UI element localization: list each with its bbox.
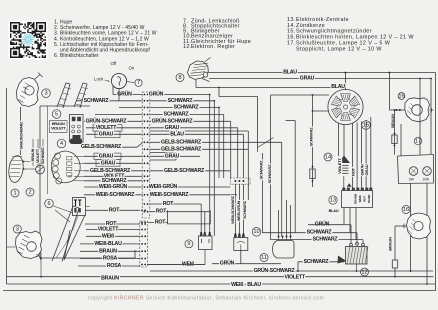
- blinker lower wires: [7, 247, 42, 277]
- tail light drop wires: [401, 79, 427, 285]
- svg-text:SCHWARZ: SCHWARZ: [309, 127, 314, 147]
- wire to electronic box right: [370, 117, 372, 188]
- tail light 17 box: [398, 155, 434, 184]
- label BRAUN VIOLETT at switch: [50, 121, 68, 133]
- wire rows at upper connector strip: [76, 91, 282, 215]
- handlebar lever boots: [57, 83, 88, 108]
- svg-text:WEIß-BLAU: WEIß-BLAU: [94, 241, 122, 247]
- wire BLAU to magneto: [196, 72, 346, 97]
- wire SCHWARZ regulator ground: [298, 256, 347, 272]
- legend column 3: [287, 17, 414, 53]
- svg-text:ROT: ROT: [156, 209, 167, 215]
- rear blinker 16 upper: [405, 98, 434, 122]
- svg-text:BLAU: BLAU: [329, 209, 339, 213]
- svg-text:GRÜN-SCHWARZ: GRÜN-SCHWARZ: [86, 117, 128, 124]
- bulb stub wires: [86, 207, 143, 211]
- svg-text:10: 10: [253, 229, 259, 235]
- blinker switch lever: [54, 206, 74, 222]
- svg-text:GRÜN: GRÜN: [117, 91, 132, 98]
- frame border right: [435, 73, 437, 291]
- wire BRAUN blinker lower: [388, 226, 407, 277]
- svg-text:Lock: Lock: [94, 77, 104, 82]
- svg-text:9: 9: [187, 241, 190, 247]
- svg-text:GRÜN: GRÜN: [149, 91, 164, 98]
- control lamp stub wires: [74, 156, 84, 181]
- headlamp bulb 2: [73, 198, 86, 216]
- wire GRAU-SCHWARZ vertical left: [19, 107, 23, 155]
- control lamp connector: [70, 139, 82, 145]
- svg-text:1: 1: [13, 190, 16, 196]
- svg-text:16: 16: [403, 207, 409, 213]
- wire GELB-SCHWARZ left jog: [81, 143, 142, 150]
- svg-text:ROT: ROT: [163, 201, 174, 207]
- svg-text:SCHWARZ: SCHWARZ: [41, 147, 45, 165]
- svg-text:16: 16: [398, 93, 404, 99]
- flywheel magneto 15: [328, 89, 363, 124]
- svg-text:GRAU: GRAU: [99, 153, 114, 159]
- legend column 1: [54, 20, 157, 60]
- fuse mid with SCHWARZ label: [309, 95, 338, 187]
- svg-text:ROT: ROT: [155, 219, 166, 225]
- svg-text:5.: 5.: [54, 42, 58, 48]
- connector strip lower: [140, 221, 148, 267]
- svg-text:12: 12: [361, 269, 367, 275]
- svg-text:BRAUN: BRAUN: [31, 148, 35, 161]
- wire GRAU top bus: [209, 76, 431, 155]
- svg-text:WEIß-GRÜN: WEIß-GRÜN: [236, 200, 241, 221]
- wire SCHWARZ to regulator a: [262, 208, 357, 244]
- wire magneto mid: [356, 123, 358, 188]
- headlamp shell outline: [40, 106, 135, 258]
- svg-text:copyright KIRCHNER Service Kab: copyright KIRCHNER Service Kabelmanufakt…: [88, 296, 324, 302]
- ref 3 circle upper: [42, 89, 51, 98]
- wire WEISS-BLAU bottom bus: [7, 282, 436, 288]
- svg-text:SCHWARZ: SCHWARZ: [267, 164, 272, 184]
- ref 6 circle: [45, 199, 54, 208]
- spark plug 14: [338, 125, 350, 188]
- svg-text:BRAUN: BRAUN: [99, 248, 117, 254]
- horn 1: [7, 155, 25, 184]
- svg-text:GRÜN: GRÜN: [220, 260, 235, 267]
- svg-text:VIOLETT: VIOLETT: [98, 227, 120, 233]
- wire trunk SCHWARZ vertical b: [267, 94, 329, 240]
- kill switch diagonal: [258, 138, 274, 148]
- headlamp reflector 2: [52, 206, 85, 262]
- ref 17 circle: [414, 137, 422, 145]
- svg-text:ROT: ROT: [109, 207, 120, 213]
- svg-text:VIOLETT: VIOLETT: [96, 125, 118, 131]
- svg-text:6: 6: [47, 201, 50, 207]
- wire GRUEN-SCHWARZ bottom bus: [150, 79, 433, 274]
- svg-text:VIOLETT: VIOLETT: [51, 127, 67, 131]
- svg-text:GRAU: GRAU: [300, 76, 315, 82]
- svg-text:5W: 5W: [409, 178, 414, 182]
- svg-text:VIOLETT: VIOLETT: [36, 148, 40, 163]
- svg-text:Stopplicht, Lampe 12 V – 10 W: Stopplicht, Lampe 12 V – 10 W: [296, 46, 382, 52]
- wire BRAUN to blinker 16 upper: [389, 72, 405, 128]
- svg-text:BRAUN: BRAUN: [390, 114, 395, 128]
- svg-text:SCHWARZ: SCHWARZ: [174, 105, 200, 111]
- svg-text:GELB-SCHWARZ: GELB-SCHWARZ: [164, 168, 205, 174]
- wire GRUEN magneto: [360, 122, 365, 188]
- wire GELB-SCHWARZ long a: [281, 142, 283, 236]
- svg-text:ROT: ROT: [351, 167, 356, 176]
- ref 13 circle: [329, 196, 337, 204]
- wire GRUEN to regulator: [308, 208, 351, 245]
- ignition lock wires: [113, 86, 124, 108]
- wire WEISS under 9: [147, 222, 205, 264]
- wire trunk horizontal upper: [219, 97, 258, 152]
- svg-text:GRÜN-SCHWARZ: GRÜN-SCHWARZ: [152, 117, 194, 124]
- wire ROSA long: [78, 263, 140, 269]
- svg-text:60: 60: [68, 175, 72, 179]
- horn terminals: [23, 161, 40, 170]
- fuel gauge 10: [234, 233, 248, 250]
- svg-text:WEIß-SCHWARZ: WEIß-SCHWARZ: [150, 192, 190, 198]
- ref 14 circle: [324, 153, 332, 161]
- ref 10 circle: [252, 228, 261, 237]
- regulator 12: [346, 242, 369, 271]
- svg-text:VIOLETT: VIOLETT: [284, 275, 306, 281]
- svg-text:ROT: ROT: [363, 196, 367, 202]
- svg-text:Blinklichtschalter: Blinklichtschalter: [60, 53, 99, 59]
- ref 8 circle: [176, 74, 184, 82]
- svg-text:7: 7: [137, 80, 140, 86]
- wire trunk SCHWARZ vertical a: [259, 153, 264, 233]
- stoplight switch 8: [188, 58, 211, 82]
- svg-text:On: On: [129, 66, 135, 71]
- flasher relay 9: [199, 204, 213, 265]
- ref 4 circle: [57, 139, 66, 148]
- svg-text:Off: Off: [111, 61, 118, 66]
- blinker lamp 3 front lower: [16, 231, 43, 260]
- blinker lamp 3 front upper: [17, 73, 43, 107]
- wire trunk vertical c: [247, 131, 249, 200]
- horn button: [36, 165, 45, 174]
- wire SCHWARZ vertical d: [286, 121, 296, 233]
- ref 11 circle: [260, 254, 268, 262]
- rectifier 11: [273, 236, 295, 264]
- rectifier feed wires: [279, 200, 291, 237]
- svg-text:BRAUN: BRAUN: [101, 276, 119, 282]
- wire ROT to loop: [147, 221, 167, 223]
- svg-text:SCHWARZ: SCHWARZ: [307, 230, 333, 236]
- wire rows at lower connector strip: [80, 207, 205, 267]
- svg-text:17.: 17.: [287, 41, 296, 47]
- svg-text:GELB-SCHWARZ: GELB-SCHWARZ: [161, 139, 202, 145]
- wire SCHWARZ to regulator b: [271, 208, 364, 245]
- svg-text:GRAU/SCHWARZ: GRAU/SCHWARZ: [19, 121, 23, 149]
- light switch 5: [70, 115, 84, 143]
- svg-text:SCHWARZ: SCHWARZ: [259, 160, 264, 180]
- rear blinker 16 lower: [403, 213, 431, 239]
- svg-text:6.: 6.: [54, 53, 58, 59]
- ref 7 circle: [135, 79, 142, 86]
- frame border left: [6, 88, 8, 284]
- svg-text:BRAUN: BRAUN: [388, 237, 393, 251]
- svg-text:3: 3: [16, 226, 19, 232]
- wire ROT magneto: [351, 124, 356, 188]
- ref 9 circle: [185, 240, 193, 248]
- svg-text:BLAU: BLAU: [331, 84, 345, 90]
- QR code watermark: [9, 21, 48, 60]
- svg-text:SCHWARZ: SCHWARZ: [102, 178, 128, 184]
- svg-text:WEIß: WEIß: [102, 233, 115, 239]
- ref 16 circle upper: [398, 93, 405, 100]
- svg-text:SCHW: SCHW: [367, 194, 371, 203]
- svg-text:WEIß: WEIß: [358, 195, 362, 202]
- ref 5 circle: [52, 110, 61, 119]
- ref 2 circle: [26, 188, 34, 196]
- ref 15 circle: [362, 121, 371, 130]
- svg-text:11: 11: [261, 255, 267, 261]
- svg-text:WEIß - BLAU: WEIß - BLAU: [231, 282, 261, 288]
- svg-text:ROSA: ROSA: [107, 263, 122, 269]
- connector strip upper: [142, 92, 150, 218]
- svg-text:GRAU: GRAU: [165, 153, 180, 159]
- wire row loop top: [150, 130, 249, 132]
- svg-text:VIOLETT: VIOLETT: [337, 158, 342, 174]
- legend column 2: [183, 18, 251, 50]
- wire loop rectangle: [168, 210, 211, 224]
- svg-text:3: 3: [44, 91, 47, 97]
- svg-text:BLAU: BLAU: [170, 131, 184, 137]
- electronic central pin labels: [354, 194, 372, 204]
- wire VIOLETT-BRAUN bottom bus: [7, 275, 434, 282]
- svg-text:BRAUN: BRAUN: [354, 194, 358, 204]
- svg-text:10W: 10W: [423, 178, 430, 182]
- svg-text:5: 5: [55, 111, 58, 117]
- svg-text:ROSA: ROSA: [103, 256, 118, 262]
- svg-text:SCHWARZ: SCHWARZ: [164, 112, 190, 118]
- control lamps 4 cluster: [51, 151, 80, 184]
- svg-text:GRAU: GRAU: [99, 131, 114, 137]
- svg-text:WEIß-GRÜN: WEIß-GRÜN: [149, 183, 178, 190]
- wire GRAU loop box: [150, 153, 176, 161]
- svg-text:WEIß-SCHWARZ: WEIß-SCHWARZ: [96, 192, 136, 198]
- wire BLAU top bus: [208, 70, 436, 76]
- svg-text:Elektron. Regler: Elektron. Regler: [191, 44, 235, 50]
- ref 1 circle: [11, 189, 19, 197]
- svg-text:4: 4: [60, 141, 63, 147]
- svg-text:GRÜN: GRÜN: [315, 221, 330, 228]
- fuel gauge vertical wires: [231, 184, 247, 234]
- svg-text:WEIß-GRÜN: WEIß-GRÜN: [99, 183, 128, 190]
- wire VIOLETT magneto: [337, 123, 342, 174]
- svg-text:14: 14: [325, 154, 331, 160]
- wire GRUEN under 10: [212, 251, 281, 267]
- svg-text:BLAU: BLAU: [283, 70, 297, 76]
- svg-text:WEIß-SCHWARZ: WEIß-SCHWARZ: [231, 195, 235, 223]
- svg-text:GELB-SCHWARZ: GELB-SCHWARZ: [161, 146, 202, 152]
- svg-text:SCHWARZ: SCHWARZ: [304, 259, 330, 265]
- electronic central 13: [342, 183, 373, 207]
- svg-text:8: 8: [178, 75, 181, 81]
- ref 12 circle: [361, 268, 369, 276]
- wire magneto left to fuse: [312, 110, 329, 112]
- svg-text:13: 13: [330, 197, 336, 203]
- frame border bottom: [3, 290, 436, 292]
- svg-text:GRAU: GRAU: [101, 160, 116, 166]
- svg-text:GRÜN-SCHWARZ: GRÜN-SCHWARZ: [254, 267, 296, 274]
- fuel gauge connector: [230, 178, 250, 184]
- wire corner verticals center: [210, 88, 244, 237]
- svg-text:BRAUN: BRAUN: [52, 122, 65, 126]
- svg-text:GRAU: GRAU: [165, 125, 180, 131]
- svg-text:SCHWARZ: SCHWARZ: [84, 98, 110, 104]
- svg-text:GELB-SCHWARZ: GELB-SCHWARZ: [81, 144, 122, 150]
- wire GRAU magneto: [364, 120, 369, 188]
- svg-text:SCHWARZ: SCHWARZ: [168, 98, 194, 104]
- ref 16 circle lower: [402, 206, 410, 214]
- horn button wires: [31, 139, 45, 168]
- fuse right: [392, 109, 397, 155]
- svg-text:SCHWARZ: SCHWARZ: [243, 200, 247, 219]
- svg-text:SCHWARZ: SCHWARZ: [313, 237, 339, 243]
- ref 3 circle lower: [13, 225, 21, 233]
- svg-text:2: 2: [28, 189, 31, 195]
- ignition lock 7: [94, 61, 135, 89]
- svg-text:GRAU: GRAU: [364, 164, 369, 175]
